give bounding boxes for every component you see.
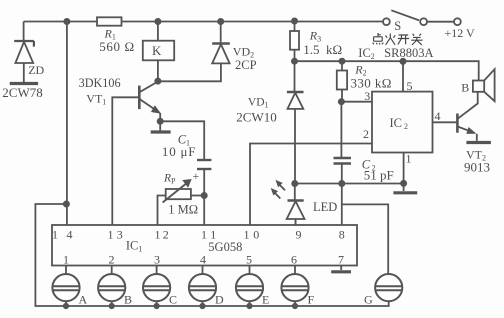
svg-text:10 μF: 10 μF <box>162 144 196 159</box>
svg-text:F: F <box>308 293 315 307</box>
svg-text:G: G <box>364 293 373 307</box>
svg-text:9013: 9013 <box>464 160 490 175</box>
LED emission arrows <box>272 181 285 199</box>
node junction VD2 top <box>218 19 223 24</box>
speaker B <box>473 69 495 101</box>
wire pin9 <box>295 219 297 225</box>
lamp E <box>236 266 263 309</box>
svg-text:51 pF: 51 pF <box>364 168 394 183</box>
svg-text:2: 2 <box>163 228 169 242</box>
pin labels top row <box>52 228 345 242</box>
wire VT1 base to pin13 <box>112 97 139 225</box>
wire pin4 to VT2 base <box>433 121 458 123</box>
svg-text:0: 0 <box>253 228 259 242</box>
svg-text:VT1: VT1 <box>86 91 106 106</box>
lamp B <box>98 266 125 309</box>
node junction K top <box>155 19 160 24</box>
ground pin7 <box>331 266 351 272</box>
label pin1 <box>406 152 412 166</box>
svg-text:ZD: ZD <box>28 63 44 77</box>
lamp G <box>375 274 402 301</box>
label A <box>79 293 88 307</box>
svg-text:E: E <box>262 293 269 307</box>
svg-text:3: 3 <box>364 89 370 103</box>
wire emitter to C1 <box>160 121 204 159</box>
label VT2 <box>464 147 490 174</box>
svg-text:1: 1 <box>63 253 69 267</box>
label IC2 <box>390 116 409 131</box>
LED D <box>287 184 305 226</box>
svg-text:IC1: IC1 <box>126 239 142 254</box>
label E <box>262 293 269 307</box>
label D <box>215 293 224 307</box>
label IC2 SR8803A <box>358 46 433 61</box>
op-amp IC2 box <box>372 92 433 153</box>
svg-text:330 kΩ: 330 kΩ <box>351 76 392 91</box>
label B <box>461 81 469 95</box>
svg-text:2CW10: 2CW10 <box>236 110 276 125</box>
label F <box>308 293 315 307</box>
wire left bypass to bottom rail <box>35 204 388 306</box>
label +12V <box>445 26 476 40</box>
svg-text:1: 1 <box>108 228 114 242</box>
svg-text:4: 4 <box>67 228 73 242</box>
svg-text:1: 1 <box>244 228 250 242</box>
svg-text:5: 5 <box>246 253 252 267</box>
label pin5 <box>407 79 413 93</box>
label S <box>394 19 401 33</box>
svg-text:1: 1 <box>210 228 216 242</box>
svg-text:C: C <box>169 293 177 307</box>
label pin3 <box>364 89 370 103</box>
label B <box>124 293 132 307</box>
svg-text:6: 6 <box>291 253 297 267</box>
svg-text:3: 3 <box>154 253 160 267</box>
svg-text:4: 4 <box>435 109 441 123</box>
svg-text:1 MΩ: 1 MΩ <box>168 203 198 217</box>
node junction rail2 left <box>292 59 297 64</box>
svg-text:560 Ω: 560 Ω <box>99 39 134 54</box>
svg-text:2: 2 <box>109 253 115 267</box>
lamp A <box>52 266 79 309</box>
svg-text:2CW78: 2CW78 <box>2 85 42 100</box>
resistor R2 <box>337 61 347 101</box>
label C2 <box>362 157 394 182</box>
svg-text:+: + <box>193 169 200 183</box>
svg-text:8: 8 <box>339 228 345 242</box>
pin labels bottom row <box>63 253 344 267</box>
resistor R3 <box>290 22 299 62</box>
wire pin8 branch to lamp G <box>342 204 388 274</box>
node junction C2 bottom <box>339 181 344 186</box>
svg-text:IC2 SR8803A: IC2 SR8803A <box>358 46 433 61</box>
label R3 <box>303 29 342 57</box>
wire pin3 <box>341 101 372 103</box>
label pin4 <box>435 109 441 123</box>
node junction R3 top <box>292 18 297 23</box>
diode VD2 <box>158 22 230 82</box>
svg-text:K: K <box>152 43 162 58</box>
potentiometer RP <box>158 180 205 225</box>
svg-text:1: 1 <box>406 152 412 166</box>
wire rail2 <box>295 61 479 80</box>
ground under VT1 emitter <box>151 121 171 132</box>
node junction R2 bottom pin3 <box>339 99 344 104</box>
transistor VT1 <box>139 81 160 121</box>
svg-text:2: 2 <box>363 127 369 141</box>
label C1 <box>162 133 200 183</box>
svg-text:1: 1 <box>201 228 207 242</box>
switch S <box>383 10 461 25</box>
svg-text:RP: RP <box>163 172 176 185</box>
svg-text:5G058: 5G058 <box>208 240 242 254</box>
wire pin1 <box>403 153 405 184</box>
transistor VT2 <box>457 92 491 143</box>
resistor R1 <box>97 17 122 25</box>
wire mid rail y183 <box>295 183 404 185</box>
label G <box>364 293 373 307</box>
node junction R2 top <box>339 59 344 64</box>
svg-text:IC2: IC2 <box>390 116 409 131</box>
node junction VD1 LED <box>292 181 297 186</box>
svg-text:VD1: VD1 <box>248 96 269 109</box>
svg-text:4: 4 <box>200 253 206 267</box>
svg-text:B: B <box>461 81 469 95</box>
svg-text:D: D <box>215 293 224 307</box>
wire pin11 <box>203 196 205 226</box>
label pin2 <box>363 127 369 141</box>
zener diode ZD <box>10 22 38 84</box>
ground under IC2 pin1 <box>393 183 417 192</box>
label LED <box>313 200 337 214</box>
IC U1 box 5G058 <box>52 225 357 266</box>
wire pin2 to pin10 <box>250 144 372 226</box>
wire pin8 <box>341 184 343 226</box>
capacitor C1 <box>197 160 211 196</box>
wire pin5 <box>402 61 404 91</box>
svg-text:A: A <box>79 293 88 307</box>
label VT1 <box>79 76 121 106</box>
label K <box>152 43 162 58</box>
lamp D <box>189 266 216 309</box>
wire pin14 rail <box>66 22 68 226</box>
diode VD1 <box>287 61 304 183</box>
lamp F <box>281 266 308 309</box>
label R1 value <box>99 27 134 54</box>
svg-text:9: 9 <box>296 228 302 242</box>
wire top +12V rail <box>24 21 383 23</box>
svg-text:3: 3 <box>117 228 123 242</box>
svg-text:2CP: 2CP <box>235 58 257 72</box>
svg-text:S: S <box>394 19 401 33</box>
label ZD <box>2 63 44 100</box>
lamp C <box>143 266 170 309</box>
node junction C1/RP/pin11 <box>202 193 207 198</box>
node junction left bypass <box>64 201 69 206</box>
svg-text:1: 1 <box>155 228 161 242</box>
node junction top-left <box>64 19 69 24</box>
label R2 <box>351 63 392 91</box>
svg-text:1.5 kΩ: 1.5 kΩ <box>303 42 342 57</box>
label VD2 <box>233 45 257 73</box>
label RP <box>163 172 198 216</box>
node junction pin1 mid <box>401 181 406 186</box>
svg-text:3DK106: 3DK106 <box>79 76 121 90</box>
svg-text:LED: LED <box>313 200 337 214</box>
label C <box>169 293 177 307</box>
capacitor C2 <box>334 158 352 184</box>
node junction emitter <box>158 119 163 124</box>
svg-text:B: B <box>124 293 132 307</box>
label IC1 <box>126 239 242 255</box>
svg-text:+12 V: +12 V <box>445 26 476 40</box>
relay K <box>143 22 174 82</box>
wire R2 to C2 <box>340 102 342 157</box>
node junction pin5 <box>400 59 405 64</box>
node junction VT1 collector <box>155 79 160 84</box>
svg-text:1: 1 <box>52 228 58 242</box>
label ignition switch 点火开关 (drawn glyphs) <box>373 33 423 45</box>
svg-text:7: 7 <box>338 253 344 267</box>
label VD1 <box>236 96 276 124</box>
